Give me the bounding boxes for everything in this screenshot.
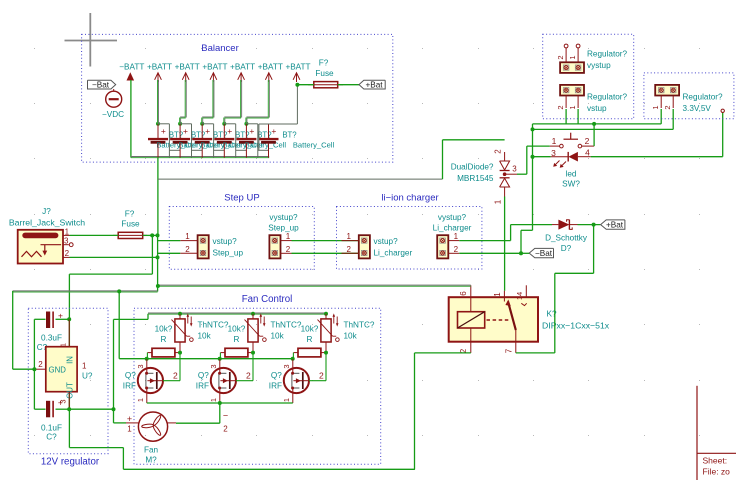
svg-text:3: 3	[209, 364, 218, 368]
connector vystup? Li_charger (output)	[437, 235, 448, 258]
relay pin 1	[503, 291, 505, 302]
svg-text:1: 1	[651, 105, 660, 109]
svg-text:J?: J?	[42, 207, 51, 216]
svg-text:1: 1	[568, 105, 577, 109]
battery BT4 (Battery_Cell)	[222, 122, 226, 126]
wire R3 to gate node	[292, 353, 294, 359]
relay pin 7	[515, 330, 517, 342]
global label +Bat (output)	[601, 220, 625, 229]
wire dualdiode pin3 to SW1	[517, 173, 527, 175]
wire gnd rail (right level)	[158, 284, 471, 286]
wire -Bat riser	[532, 124, 534, 230]
wire led pin3 to rail	[533, 156, 551, 158]
connector Regulator? vystup (top)	[560, 62, 584, 73]
svg-text:−VDC: −VDC	[102, 110, 124, 119]
svg-text:2: 2	[585, 136, 590, 146]
svg-text:R: R	[161, 335, 167, 344]
battery BT3 (Battery_Cell)	[200, 122, 204, 126]
resistor R3 10k	[298, 348, 321, 357]
wire Q3 drain up	[309, 380, 326, 382]
svg-text:2: 2	[38, 360, 43, 369]
relay pin 14	[525, 285, 527, 297]
wire battery 4 series link	[223, 144, 225, 158]
wire schottky to +Bat	[578, 224, 601, 226]
title block frame	[696, 386, 698, 480]
wire jack pin1 to fuse	[70, 234, 119, 236]
wire gnd rail left drop	[12, 291, 14, 369]
svg-text:1: 1	[493, 292, 502, 297]
svg-text:2: 2	[494, 149, 503, 154]
relay pin 6	[470, 285, 472, 297]
diode D? D_Schottky	[511, 224, 552, 226]
svg-text:Balancer: Balancer	[201, 43, 239, 54]
wire fuse to +Bat label	[338, 84, 359, 86]
wire source rail	[147, 402, 293, 404]
svg-text:Fan Control: Fan Control	[242, 294, 293, 305]
wire tap battery 4 to +BATT	[224, 118, 226, 124]
svg-text:3: 3	[282, 364, 291, 368]
svg-text:1: 1	[59, 343, 68, 347]
svg-text:IRF: IRF	[123, 382, 136, 391]
svg-text:BT?: BT?	[282, 131, 297, 140]
thermistor ThNTC2 10k	[251, 312, 255, 316]
svg-text:+: +	[58, 398, 63, 408]
arrow -BATT (filled)	[127, 72, 135, 80]
svg-text:SW?: SW?	[562, 180, 580, 189]
regulator pin 3 OUT	[68, 392, 70, 410]
svg-text:+: +	[227, 126, 232, 136]
wire cap2 to out node	[56, 408, 70, 410]
svg-text:+: +	[271, 126, 276, 136]
svg-text:Li_charger: Li_charger	[433, 223, 472, 232]
wire fuse to main node	[143, 234, 158, 236]
svg-text:2: 2	[65, 249, 70, 258]
svg-text:−Bat: −Bat	[92, 81, 110, 90]
svg-text:MBR1545: MBR1545	[457, 174, 494, 183]
wire battery 3 series link	[201, 144, 203, 158]
svg-text:−BATT: −BATT	[119, 63, 144, 72]
resistor R2 10k	[225, 348, 248, 357]
svg-text:1: 1	[65, 228, 70, 237]
sheet origin marker	[89, 13, 91, 67]
svg-text:1: 1	[286, 232, 291, 241]
svg-text:Li_charger: Li_charger	[374, 248, 413, 257]
wire R1 to gate node	[146, 353, 148, 359]
battery BT5 (Battery_Cell)	[244, 122, 248, 126]
svg-text:vstup?: vstup?	[213, 237, 238, 246]
wire tap battery 1 to +BATT	[158, 118, 160, 124]
global label -Bat (balancer)	[88, 80, 116, 89]
svg-text:1: 1	[136, 398, 145, 402]
svg-text:Sheet:: Sheet:	[703, 456, 728, 466]
svg-text:vystup: vystup	[587, 61, 611, 70]
svg-text:Battery_Cell: Battery_Cell	[293, 141, 335, 150]
arrow +BATT #2	[182, 73, 189, 80]
svg-text:2: 2	[246, 371, 251, 381]
svg-text:Regulator?: Regulator?	[683, 93, 724, 102]
wire battery 1 series link	[157, 144, 159, 158]
svg-text:1: 1	[552, 136, 557, 146]
arrow +BATT #3	[210, 73, 217, 80]
battery BT1 (Battery_Cell)	[156, 122, 160, 126]
svg-text:10k?: 10k?	[301, 325, 319, 334]
wire stepup out1 to liion in1	[292, 240, 359, 242]
svg-text:−Bat: −Bat	[535, 249, 553, 258]
wire cap1 to IN	[56, 318, 70, 320]
arrow +BATT #5	[265, 73, 272, 80]
svg-text:7: 7	[505, 348, 514, 353]
svg-text:DIPxx−1Cxx−51x: DIPxx−1Cxx−51x	[542, 321, 610, 331]
arrow +BATT #6	[293, 73, 300, 80]
svg-text:Step_up: Step_up	[268, 223, 299, 232]
svg-text:IN: IN	[66, 356, 75, 364]
resistor R1 10k	[152, 348, 175, 357]
svg-text:U?: U?	[82, 372, 93, 381]
svg-text:+: +	[205, 126, 210, 136]
transistor Q2 IRF (MOSFET)	[211, 368, 236, 393]
svg-text:2: 2	[454, 245, 459, 254]
wire cap2 left	[34, 408, 45, 410]
svg-text:3: 3	[512, 165, 517, 174]
svg-text:R: R	[307, 335, 313, 344]
wire liion out1 to schottky riser	[459, 240, 510, 242]
svg-text:ThNTC?: ThNTC?	[271, 321, 302, 330]
wire battery 2 series link	[179, 144, 181, 158]
thermistor ThNTC1 10k	[178, 312, 182, 316]
li-ion charger sheet box	[337, 207, 482, 270]
relay K? DIPxx-1Cxx-51x body	[449, 297, 538, 342]
svg-text:Fan: Fan	[144, 446, 159, 455]
svg-text:1: 1	[209, 398, 218, 402]
connector vystup? Step_up (output)	[269, 235, 280, 258]
wire gnd staircase	[151, 235, 153, 274]
svg-text:D?: D?	[561, 244, 572, 253]
svg-text:1: 1	[454, 232, 459, 241]
svg-text:Q?: Q?	[125, 371, 136, 380]
Fan Control sheet box	[134, 308, 381, 464]
svg-text:+: +	[183, 126, 188, 136]
svg-text:10k?: 10k?	[155, 325, 173, 334]
12V regulator sheet box	[28, 308, 108, 453]
svg-text:Regulator?: Regulator?	[587, 50, 628, 59]
svg-text:3: 3	[64, 237, 69, 246]
capacitor C? 0.3uF	[46, 312, 50, 329]
wire gnd rail (left level)	[13, 290, 158, 292]
svg-text:1: 1	[185, 232, 190, 241]
Regulator vystup/vstup sheet box	[543, 34, 634, 118]
svg-text:1: 1	[282, 398, 291, 402]
Balancer sheet box	[82, 34, 393, 162]
wire relay pin7 to +Bat	[516, 352, 555, 354]
svg-text:2: 2	[223, 425, 228, 434]
wire liion out2 to -Bat	[459, 252, 521, 254]
svg-text:Step_up: Step_up	[213, 248, 244, 257]
regulator pin 2 GND	[34, 368, 45, 370]
svg-text:14: 14	[515, 292, 524, 300]
svg-text:10k?: 10k?	[228, 325, 246, 334]
svg-text:12V regulator: 12V regulator	[41, 457, 100, 468]
connector vstup? Step_up (input)	[198, 235, 209, 258]
global label -Bat (output)	[529, 248, 553, 257]
svg-text:Fuse: Fuse	[121, 220, 140, 229]
regulator U? body	[46, 347, 77, 392]
battery BT6 (Battery_Cell)	[268, 124, 270, 138]
capacitor C? 0.1uF	[46, 401, 50, 418]
svg-text:+BATT: +BATT	[230, 63, 255, 72]
svg-text:vystup?: vystup?	[438, 213, 467, 222]
svg-text:2: 2	[663, 105, 672, 109]
svg-text:10k: 10k	[198, 332, 212, 341]
svg-text:D_Schottky: D_Schottky	[545, 234, 588, 243]
svg-text:4: 4	[585, 148, 590, 158]
svg-text:F?: F?	[319, 59, 329, 68]
wire battery+ to DualDiode	[158, 178, 443, 180]
arrow +BATT #4	[238, 73, 245, 80]
svg-text:F?: F?	[125, 210, 135, 219]
barrel jack pin 1	[63, 234, 70, 236]
svg-text:2: 2	[319, 371, 324, 381]
wire rail to stepup pin2	[158, 252, 181, 254]
switch SW? pin2	[582, 145, 594, 147]
arrow +BATT #1	[155, 73, 162, 80]
wire fuse junction down to battery 6	[296, 85, 298, 124]
svg-text:2: 2	[346, 245, 351, 254]
wire jack pin2 run	[70, 256, 158, 258]
global label +Bat (balancer)	[359, 80, 385, 89]
svg-text:1: 1	[494, 199, 503, 204]
svg-text:GND: GND	[49, 366, 67, 375]
wire led pin4 to right rail	[591, 156, 723, 158]
fan M? motor	[138, 412, 167, 441]
svg-text:+BATT: +BATT	[147, 63, 172, 72]
wire rail to stepup pin1	[158, 240, 181, 242]
svg-text:10k: 10k	[344, 332, 358, 341]
connector Regulator? vstup (bottom)	[560, 85, 584, 96]
svg-text:Fuse: Fuse	[315, 69, 334, 78]
barrel jack pin 3	[63, 244, 69, 246]
svg-text:2: 2	[185, 245, 190, 254]
wire tap battery 2 to +BATT	[180, 118, 182, 124]
svg-text:1: 1	[568, 55, 577, 59]
svg-text:+BATT: +BATT	[258, 63, 283, 72]
svg-text:IRF: IRF	[269, 382, 282, 391]
wire battery 6 series link	[268, 144, 270, 158]
svg-text:Step UP: Step UP	[224, 193, 259, 204]
wire bottom gnd rail	[123, 468, 415, 470]
svg-text:ThNTC?: ThNTC?	[198, 321, 229, 330]
wire +BATT7 junction to fuse	[297, 84, 313, 86]
transistor Q3 IRF (MOSFET)	[284, 368, 309, 393]
svg-text:li−ion charger: li−ion charger	[381, 193, 438, 204]
Step UP sheet box	[169, 207, 314, 270]
svg-text:Q?: Q?	[198, 371, 209, 380]
svg-text:+BATT: +BATT	[202, 63, 227, 72]
battery BT2 (Battery_Cell)	[178, 122, 182, 126]
wire stepup out2 to liion in2	[292, 252, 359, 254]
wire thermistor top rail	[148, 312, 326, 314]
wire gnd to cap1	[34, 318, 45, 320]
svg-text:−: −	[223, 411, 228, 421]
thermistor ThNTC3 10k	[324, 312, 328, 316]
Regulator 3.3V,5V sheet box	[644, 73, 734, 119]
switch SW? pin1	[550, 145, 560, 147]
svg-text:2: 2	[286, 245, 291, 254]
svg-text:+Bat: +Bat	[606, 221, 624, 230]
wire out node to fan node	[69, 408, 113, 410]
barrel jack pin 2	[63, 256, 70, 258]
svg-text:2: 2	[556, 105, 565, 109]
svg-text:+Bat: +Bat	[365, 81, 383, 90]
wire regulator rail B	[533, 128, 674, 130]
svg-text:M?: M?	[145, 456, 157, 465]
wire SW pin2 up	[593, 124, 595, 146]
svg-text:1: 1	[82, 362, 87, 371]
svg-text:2: 2	[556, 55, 565, 59]
wire battery 5 series link	[245, 144, 247, 158]
svg-text:Regulator?: Regulator?	[587, 93, 628, 102]
wire Q2 drain up	[236, 380, 253, 382]
connector vstup? Li_charger (input)	[359, 235, 370, 258]
svg-text:+BATT: +BATT	[285, 63, 310, 72]
wire -BATT rail	[130, 80, 132, 158]
svg-text:ThNTC?: ThNTC?	[344, 321, 375, 330]
svg-text:File: zo: File: zo	[703, 467, 731, 477]
svg-text:1: 1	[346, 232, 351, 241]
svg-text:3: 3	[136, 364, 145, 368]
switch SW? contacts	[560, 144, 564, 148]
svg-text:Q?: Q?	[271, 371, 282, 380]
regulator pin 1 IN	[68, 319, 70, 346]
svg-text:IRF: IRF	[196, 382, 209, 391]
svg-text:vstup: vstup	[587, 104, 607, 113]
connector Regulator? 3.3V,5V	[655, 85, 679, 96]
wire R2 to gate node	[219, 353, 221, 359]
wire regulator rail A	[533, 123, 662, 125]
svg-text:Barrel_Jack_Switch: Barrel_Jack_Switch	[9, 217, 85, 227]
wire battery chain bottom rail	[131, 156, 269, 158]
svg-text:2: 2	[173, 371, 178, 381]
svg-text:0.1uF: 0.1uF	[41, 424, 62, 433]
svg-text:C?: C?	[46, 433, 57, 442]
svg-text:3.3V,5V: 3.3V,5V	[683, 104, 712, 113]
svg-text:OUT: OUT	[66, 382, 75, 399]
svg-text:6: 6	[459, 291, 468, 296]
wire fan plus feed	[113, 409, 115, 423]
svg-text:0.3uF: 0.3uF	[41, 334, 62, 343]
wire 12V riser	[113, 319, 115, 409]
svg-text:+: +	[249, 126, 254, 136]
wire balancer to charger rail	[157, 158, 159, 236]
svg-text:vstup?: vstup?	[374, 237, 399, 246]
power symbol -VDC	[113, 89, 115, 91]
svg-text:1: 1	[127, 425, 132, 434]
svg-text:+: +	[161, 126, 166, 136]
svg-text:+: +	[127, 414, 132, 424]
svg-text:R: R	[234, 335, 240, 344]
wire dualdiode pin1 to relay	[504, 197, 506, 291]
wire relay pin2 to gnd	[415, 352, 471, 354]
relay pin 2	[470, 342, 472, 353]
svg-text:DualDiode?: DualDiode?	[451, 163, 494, 172]
svg-text:led: led	[566, 170, 577, 179]
wire tap battery 5 to +BATT	[246, 118, 248, 124]
wire gate rail	[118, 291, 120, 358]
svg-text:+BATT: +BATT	[175, 63, 200, 72]
svg-text:10k: 10k	[271, 332, 285, 341]
transistor Q1 IRF (MOSFET)	[138, 368, 163, 393]
wire tap battery 3 to +BATT	[202, 118, 204, 124]
svg-text:vystup?: vystup?	[269, 213, 298, 222]
wire Q1 drain up	[163, 380, 180, 382]
